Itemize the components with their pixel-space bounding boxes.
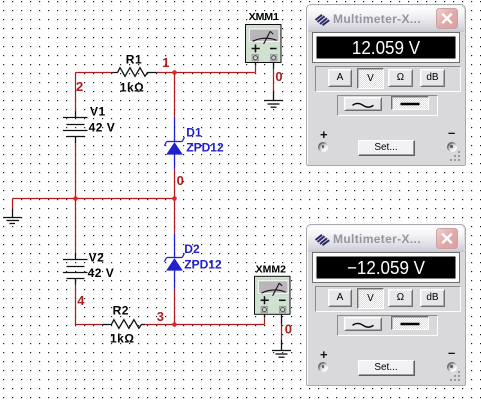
svg-text:42 V: 42 V bbox=[89, 121, 116, 135]
svg-text:ZPD12: ZPD12 bbox=[186, 141, 224, 155]
svg-text:0: 0 bbox=[275, 69, 282, 84]
svg-text:0: 0 bbox=[177, 173, 184, 188]
svg-text:XMM1: XMM1 bbox=[249, 11, 279, 23]
svg-text:1: 1 bbox=[162, 55, 169, 70]
svg-text:2: 2 bbox=[76, 79, 83, 94]
svg-text:XMM2: XMM2 bbox=[256, 264, 286, 276]
svg-text:R2: R2 bbox=[113, 304, 129, 318]
svg-text:1kΩ: 1kΩ bbox=[110, 332, 134, 346]
svg-text:ZPD12: ZPD12 bbox=[184, 258, 222, 272]
svg-text:3: 3 bbox=[157, 309, 164, 324]
svg-text:R1: R1 bbox=[126, 53, 142, 67]
svg-text:D2: D2 bbox=[184, 242, 200, 256]
svg-text:V1: V1 bbox=[90, 104, 106, 118]
svg-text:4: 4 bbox=[77, 293, 85, 308]
svg-text:D1: D1 bbox=[186, 125, 202, 139]
svg-text:0: 0 bbox=[285, 321, 292, 336]
svg-text:V2: V2 bbox=[89, 251, 105, 265]
svg-text:42 V: 42 V bbox=[88, 266, 115, 280]
svg-text:1kΩ: 1kΩ bbox=[120, 80, 144, 94]
